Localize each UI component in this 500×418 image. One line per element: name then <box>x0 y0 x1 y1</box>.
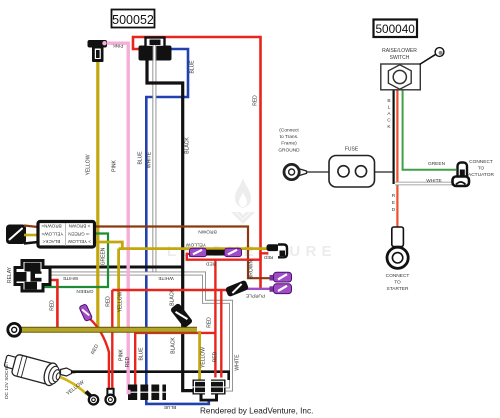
svg-text:BLUE: BLUE <box>190 60 196 74</box>
svg-text:to Trans.: to Trans. <box>280 134 299 140</box>
svg-text:BLACK: BLACK <box>185 137 191 154</box>
svg-text:WHITE: WHITE <box>63 275 78 281</box>
svg-text:SWITCH: SWITCH <box>390 55 410 61</box>
svg-text:(Connect: (Connect <box>279 128 299 134</box>
wire green from regulator down to relay <box>42 234 108 288</box>
wire purple from inline connector to lower purple spade <box>246 288 273 290</box>
svg-text:E: E <box>392 200 395 206</box>
wire white from ignition coil down (gray-outlined white) <box>152 60 156 274</box>
svg-text:BROWN: BROWN <box>198 229 217 235</box>
svg-text:GREEN: GREEN <box>428 161 446 167</box>
wire red curved from purple spade to ring terminal <box>90 319 109 389</box>
svg-text:RED: RED <box>213 351 219 362</box>
wire red from relay down to ground bar <box>48 280 57 327</box>
voltage regulator connector block with pin labels <box>38 222 95 248</box>
wire black main vertical from coil to bottom connector <box>147 59 194 391</box>
label B L A C K stacked <box>387 98 391 130</box>
ring terminal for socket yellow wire <box>86 392 98 405</box>
svg-text:YELLOW<: YELLOW< <box>41 231 63 236</box>
wire pink from plug cap down to bottom left connector <box>105 43 128 391</box>
wire red from switch down to starter terminal <box>396 89 398 228</box>
svg-text:> YELLOW: > YELLOW <box>67 239 91 244</box>
svg-text:L: L <box>388 105 391 111</box>
wire yellow rectifier to regulator <box>24 234 38 237</box>
ring terminal on ground bar <box>8 323 21 336</box>
wire black from raise/lower switch down <box>393 89 395 184</box>
rectifier diode box <box>6 225 26 245</box>
svg-text:WHITE: WHITE <box>426 178 441 184</box>
svg-text:WHITE: WHITE <box>158 275 173 281</box>
svg-text:YELLOW: YELLOW <box>186 242 206 248</box>
svg-text:BLUE: BLUE <box>138 151 144 165</box>
wire yellow vertical down to ground bar <box>117 249 120 329</box>
wire red vertical from inline connector to bottom right connector <box>220 290 222 378</box>
wire red from ignition coil to lower purple connector (long run) <box>133 37 261 290</box>
wire yellow from regulator elbow <box>95 242 122 249</box>
svg-text:C: C <box>387 118 391 124</box>
wire white from relay to bottom right connector <box>50 274 231 390</box>
wire brown from regulator to upper purple connector <box>95 227 273 279</box>
svg-text:RED: RED <box>106 296 112 307</box>
wire brown rectifier to regulator <box>24 226 38 228</box>
svg-text:RED: RED <box>50 300 56 311</box>
wire yellow horizontal through inline purple connectors to diode box <box>119 247 269 250</box>
wire yellow from spark plug cap down to ground bar <box>96 60 99 329</box>
svg-text:RED: RED <box>264 255 273 260</box>
svg-text:> BROWN: > BROWN <box>69 223 91 228</box>
wire white to actuator connector <box>395 182 452 186</box>
wire blue from coil right, down left side to bottom connector tab <box>146 49 209 404</box>
svg-text:BLACK: BLACK <box>171 337 177 354</box>
ignition coil <box>139 38 172 62</box>
svg-text:RAISE/LOWER: RAISE/LOWER <box>382 48 417 54</box>
spark plug cap <box>88 40 108 62</box>
svg-text:RED: RED <box>125 356 131 367</box>
diode holder connector (small) <box>267 244 288 257</box>
svg-text:YELLOW: YELLOW <box>201 347 207 368</box>
svg-text:⇒ GREEN: ⇒ GREEN <box>68 231 89 236</box>
diagonal purple spade connector bottom-left <box>79 304 93 322</box>
wire red from diode box under purple connectors <box>187 253 268 259</box>
label R E D stacked <box>392 193 396 213</box>
watermark LeadVenture flame logo <box>231 178 255 224</box>
ground ring terminal (trans frame) <box>284 164 307 179</box>
svg-text:PURPLE: PURPLE <box>246 293 265 299</box>
svg-text:WHITE: WHITE <box>235 354 241 371</box>
svg-text:STARTER: STARTER <box>387 286 409 292</box>
svg-text:D: D <box>392 207 396 213</box>
wire fuse line from ground to switch black <box>299 171 395 173</box>
inline black connector on red/purple line <box>225 280 249 298</box>
svg-text:TO: TO <box>478 166 485 172</box>
inline black connector on main black wire <box>170 303 193 329</box>
svg-text:500040: 500040 <box>376 22 416 36</box>
relay <box>15 261 50 292</box>
svg-text:WHITE: WHITE <box>147 151 153 168</box>
svg-text:500052: 500052 <box>112 13 154 27</box>
label CONNECT TO ACTUATOR <box>468 159 494 178</box>
svg-text:PINK: PINK <box>119 349 125 361</box>
bottom left connector block <box>127 385 167 401</box>
raise/lower switch <box>381 48 444 90</box>
svg-text:PINK: PINK <box>112 160 118 172</box>
svg-text:DC 12V SOCKET: DC 12V SOCKET <box>4 361 10 399</box>
wire red bottom horizontal into left connector <box>135 333 215 386</box>
inline purple spade pair on yellow wire <box>189 248 242 257</box>
svg-text:PINK: PINK <box>112 44 124 49</box>
svg-text:BLUE: BLUE <box>139 347 145 361</box>
bullet terminal at socket output <box>61 368 76 376</box>
label box 500052 <box>112 10 155 28</box>
svg-text:YELLOW: YELLOW <box>118 291 124 312</box>
svg-text:BROWN: BROWN <box>249 260 255 280</box>
svg-text:RELAY: RELAY <box>7 266 13 283</box>
label CONNECT TO STARTER <box>386 273 410 292</box>
starter ring terminal <box>387 227 408 268</box>
ring terminal for red wires <box>106 389 116 405</box>
svg-text:B: B <box>387 98 390 104</box>
svg-text:Rendered by LeadVenture, Inc.: Rendered by LeadVenture, Inc. <box>200 407 313 416</box>
wire yellow into bottom right connector <box>198 331 201 380</box>
svg-text:GROUND: GROUND <box>278 148 300 154</box>
upper purple spade connector <box>270 272 292 282</box>
label Connect to Trans Frame GROUND <box>278 128 300 154</box>
wire green from switch to actuator connector <box>403 89 456 170</box>
wire black from DC socket across to bottom right connector <box>68 372 229 380</box>
fuse holder <box>329 156 375 188</box>
wire red vertical mid to bottom right connector <box>214 260 216 378</box>
wire ground bar (thick olive) with ring terminal <box>21 327 197 333</box>
svg-text:GREEN: GREEN <box>101 247 107 265</box>
actuator connector <box>453 163 470 187</box>
bottom right connector block <box>193 380 226 402</box>
svg-text:BLACK: BLACK <box>170 289 176 306</box>
label RAISE/LOWER SWITCH <box>382 48 417 61</box>
svg-text:CONNECT: CONNECT <box>469 159 493 165</box>
svg-text:RED: RED <box>207 317 213 328</box>
svg-text:FUSE: FUSE <box>345 147 359 153</box>
svg-text:CONNECT: CONNECT <box>386 273 410 279</box>
svg-text:YELLOW: YELLOW <box>86 154 92 175</box>
svg-text:TO: TO <box>394 280 401 286</box>
wire yellow curve from DC socket to ring terminal <box>60 377 87 394</box>
svg-text:RED: RED <box>253 95 259 106</box>
svg-text:RED: RED <box>205 261 216 267</box>
wire black from relay to main black vertical <box>42 266 183 269</box>
lower purple spade connector <box>270 284 292 294</box>
svg-text:GREEN: GREEN <box>76 288 94 294</box>
svg-text:R: R <box>392 193 396 199</box>
svg-text:ACTUATOR: ACTUATOR <box>468 172 494 178</box>
svg-text:BLACK<: BLACK< <box>42 239 60 244</box>
wire red horizontal to bottom-left ring terminal <box>112 289 228 291</box>
svg-text:BROWN<: BROWN< <box>41 223 62 228</box>
wire black rectifier to regulator <box>24 242 38 244</box>
svg-text:BLUE: BLUE <box>164 404 177 410</box>
DC 12V socket <box>2 351 63 388</box>
svg-text:Frame): Frame) <box>281 141 297 147</box>
label box 500040 <box>374 20 418 38</box>
